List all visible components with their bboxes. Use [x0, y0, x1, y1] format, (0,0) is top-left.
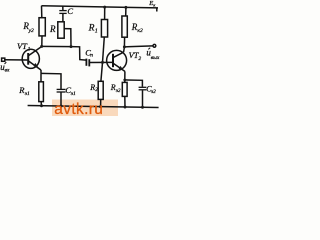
svg-text:1: 1: [28, 47, 31, 53]
watermark highlight: [52, 100, 118, 117]
wire VT2 emitter down: [124, 71, 126, 79]
label u_вых: [148, 48, 150, 50]
svg-text:э1: э1: [71, 91, 76, 97]
junction dot bottom rail Cэ1: [60, 105, 63, 108]
junction dot R tap node: [70, 45, 73, 48]
svg-text:C: C: [67, 6, 73, 16]
svg-text:вых: вых: [151, 55, 160, 61]
output terminal u_вых: [153, 44, 156, 47]
svg-text:VT: VT: [17, 41, 28, 51]
resistor R1: [101, 7, 107, 62]
svg-text:э2: э2: [151, 90, 156, 95]
svg-text:R: R: [49, 24, 56, 34]
junction dot VT2 collector node: [123, 45, 126, 48]
resistor Rэ2: [122, 80, 127, 107]
junction dot bottom rail Rэ1: [40, 104, 43, 107]
svg-text:avtk.ru: avtk.ru: [54, 101, 103, 118]
svg-text:к2: к2: [137, 28, 143, 34]
top supply rail wire: [42, 6, 159, 8]
junction dot bottom rail R2: [99, 105, 102, 108]
transistor VT2: [107, 50, 127, 71]
capacitor Cэ2: [139, 87, 147, 107]
junction dot bottom rail Cэ2: [141, 106, 144, 109]
label u_вх: [5, 62, 7, 64]
wire VT2 collector to output: [124, 46, 152, 47]
wire VT1 emitter down: [40, 70, 42, 73]
wire VT1 collector node to Cп: [42, 46, 86, 60]
svg-text:у2: у2: [28, 28, 34, 34]
capacitor Cп: [86, 59, 89, 67]
junction dot VT2 emitter node: [123, 79, 126, 82]
junction dot bottom rail Rэ2: [124, 106, 127, 109]
supply terminal Ек: [156, 8, 158, 12]
wire VT2 collector to Rк2: [123, 47, 126, 52]
bottom common rail wire: [28, 106, 159, 108]
junction dot VT1 collector node: [40, 45, 43, 48]
resistor Rэ1: [39, 73, 44, 105]
input terminal u_вх: [2, 58, 5, 61]
junction dot top rail R1: [103, 6, 106, 9]
wire Cп to VT2 base: [89, 61, 112, 63]
svg-text:э2: э2: [116, 89, 121, 94]
junction dot VT2 base node: [101, 61, 104, 64]
potentiometer R: [58, 22, 71, 47]
resistor R2: [98, 62, 103, 106]
transistor VT1: [22, 47, 42, 71]
svg-text:2: 2: [138, 56, 141, 62]
svg-text:п: п: [90, 53, 93, 59]
svg-text:вх: вх: [5, 67, 10, 73]
wire VT1 emitter to Cэ1: [41, 73, 61, 89]
resistor Rк2: [122, 7, 127, 47]
svg-text:1: 1: [95, 29, 98, 35]
capacitor C: [59, 6, 66, 22]
svg-text:R: R: [88, 24, 95, 34]
wire input to VT1 base: [5, 59, 28, 61]
wire VT2 emitter to Cэ2: [125, 80, 143, 87]
svg-text:э1: э1: [25, 91, 30, 97]
junction dot top rail Rк2: [124, 6, 127, 9]
capacitor Cэ1: [57, 89, 66, 106]
resistor Rу2: [39, 6, 45, 47]
